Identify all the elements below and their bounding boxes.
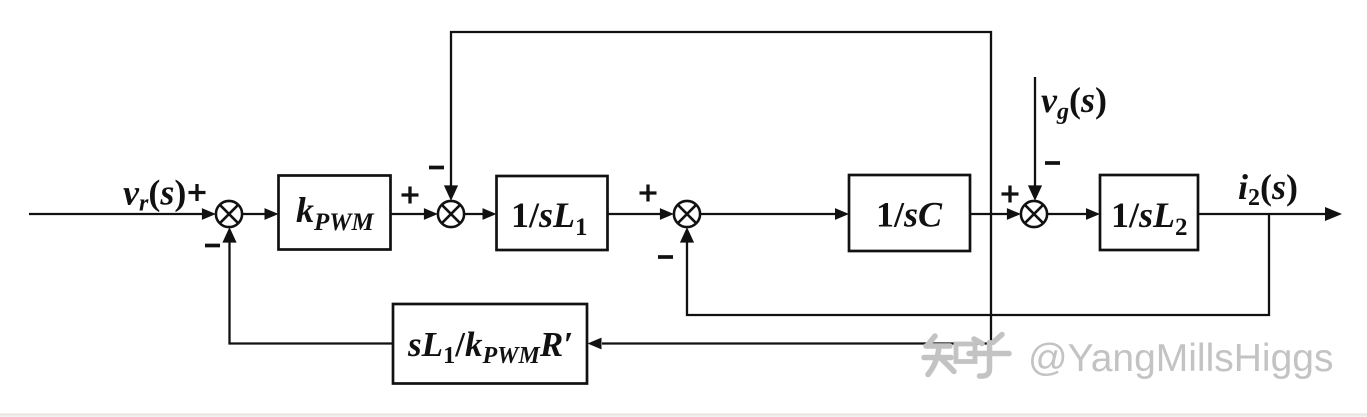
wire: input line vr(s) into summing junction S1 <box>29 213 204 215</box>
block 1/sC <box>849 175 970 251</box>
wire: feedback block output back up into S1 bottom <box>230 241 394 343</box>
bottom separator line <box>0 413 1367 415</box>
wire: S1 to block kPWM <box>242 213 266 215</box>
svg-text:vg(s): vg(s) <box>1041 80 1107 125</box>
plus sign at S1 left input <box>189 184 206 201</box>
wire: tap node vC down to feedback block input <box>602 214 991 344</box>
block sL1/kPWM R' <box>393 304 587 384</box>
wire: top feedback from node vC up and over into S2 <box>451 32 991 214</box>
wire: S2 to block 1/sL1 <box>464 213 484 215</box>
wire: vg(s) input down into S4 <box>1034 77 1036 187</box>
minus sign at S4 top input <box>1045 161 1060 165</box>
plus sign at S4 left input <box>1002 186 1019 203</box>
svg-text:i2(s): i2(s) <box>1238 167 1298 211</box>
plus sign at S3 left input <box>640 185 657 202</box>
minus sign at S1 bottom input <box>205 244 220 248</box>
svg-text:@YangMillsHiggs: @YangMillsHiggs <box>1028 337 1333 380</box>
summing junction S1 <box>216 201 242 227</box>
summing junction S3 <box>674 201 700 227</box>
wire: S3 to block 1/sC <box>700 213 836 215</box>
wire: 1/sL1 to summing junction S3 <box>608 213 661 215</box>
summing junction S2 <box>438 201 464 227</box>
minus sign at S3 bottom input <box>658 255 673 259</box>
wire: output feedback down and back into S3 bottom <box>687 214 1269 315</box>
plus sign at S2 left input <box>402 187 419 204</box>
minus sign at S2 top input <box>429 166 444 170</box>
watermark zhihu logo character hu <box>969 335 1009 377</box>
svg-text:vr(s): vr(s) <box>123 173 186 217</box>
wire: S4 to block 1/sL2 <box>1047 213 1087 215</box>
wire: kPWM to summing junction S2 <box>391 213 426 215</box>
block 1/sL1 <box>497 176 608 250</box>
wire: 1/sC to summing junction S4 across tap node vC <box>970 213 1008 215</box>
watermark zhihu logo character zhi <box>924 336 975 375</box>
wire: output line to i2(s) <box>1198 213 1328 215</box>
svg-text:1/sC: 1/sC <box>876 195 943 235</box>
block 1/sL2 <box>1100 175 1198 250</box>
block kPWM <box>279 176 391 250</box>
summing junction S4 <box>1021 201 1047 227</box>
